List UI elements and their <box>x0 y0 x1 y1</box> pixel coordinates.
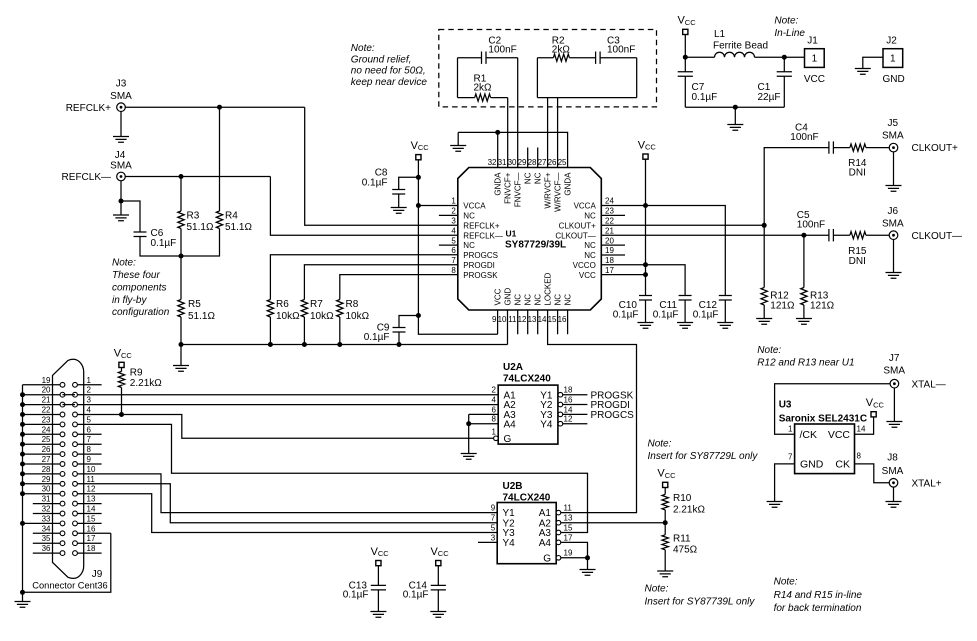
wire U2A A3 A4 to ground <box>461 414 499 459</box>
node CLKOUT- R13 tap <box>801 233 806 238</box>
resistor R3 51.1ohm <box>178 177 214 257</box>
svg-text:2kΩ: 2kΩ <box>552 45 571 56</box>
svg-text:27: 27 <box>538 158 547 167</box>
resistor R12 121ohm <box>756 225 795 324</box>
svg-text:6: 6 <box>87 425 92 434</box>
svg-text:R12 and R13 near U1: R12 and R13 near U1 <box>757 357 854 368</box>
svg-text:100nF: 100nF <box>488 45 516 56</box>
wire pin30 to C2 <box>517 58 519 168</box>
svg-text:DNI: DNI <box>849 168 866 179</box>
svg-text:VCC: VCC <box>494 288 503 305</box>
svg-text:R10: R10 <box>673 493 692 504</box>
node R3 tap on REFCLK- <box>179 174 184 179</box>
svg-text:A4: A4 <box>504 419 517 430</box>
svg-text:24: 24 <box>42 425 51 434</box>
resistor R13 121ohm <box>796 235 835 324</box>
svg-text:18: 18 <box>605 256 614 265</box>
U1 bottom NC stubs pins 11-16 <box>518 310 568 334</box>
svg-text:CC: CC <box>873 400 884 409</box>
svg-text:13: 13 <box>564 514 573 523</box>
svg-text:22: 22 <box>605 217 614 226</box>
ground below J7 <box>886 388 902 428</box>
U2B right pins A1-A4 G <box>539 504 573 565</box>
svg-text:3: 3 <box>451 217 456 226</box>
node CLKOUT+ R12 tap <box>762 223 767 228</box>
node J4 shield junction <box>119 199 124 204</box>
connector J9 Cent36 body <box>53 359 84 578</box>
svg-text:VCCO: VCCO <box>573 261 596 270</box>
svg-text:CK: CK <box>835 459 850 471</box>
ground below J5 <box>886 152 902 192</box>
capacitor C12 0.1uF with ground <box>693 296 734 329</box>
svg-text:NC: NC <box>514 294 523 306</box>
svg-text:18: 18 <box>87 544 96 553</box>
note R12 R13 near U1 <box>757 345 854 369</box>
svg-text:Note:: Note: <box>757 345 781 356</box>
svg-text:XTAL+: XTAL+ <box>912 478 942 489</box>
svg-text:J7: J7 <box>889 353 900 364</box>
svg-text:R3: R3 <box>187 211 200 222</box>
svg-text:15: 15 <box>87 514 96 523</box>
wire junction down to R5 <box>180 256 182 300</box>
buffer U2A 74LCX240 <box>498 362 558 444</box>
capacitor C7 0.1uF <box>678 57 718 107</box>
svg-text:VCCA: VCCA <box>574 202 597 211</box>
resistor R10 2.21kohm <box>662 487 705 523</box>
svg-text:FNVCF—: FNVCF— <box>514 173 523 208</box>
svg-text:GNDA: GNDA <box>494 172 503 196</box>
svg-text:REFCLK+: REFCLK+ <box>463 221 500 230</box>
svg-text:R14 and R15 in-line: R14 and R15 in-line <box>774 590 863 601</box>
wire Vcc to L1 node <box>685 34 714 57</box>
svg-text:12: 12 <box>564 415 573 424</box>
svg-text:R6: R6 <box>276 299 289 310</box>
U1 bottom pin numbers and rotated names <box>492 272 573 323</box>
svg-text:9: 9 <box>491 504 496 513</box>
svg-text:19: 19 <box>42 376 51 385</box>
node L1 right <box>782 55 787 60</box>
svg-text:19: 19 <box>605 246 614 255</box>
vcc symbol at U3 pin14 <box>855 397 885 434</box>
svg-text:2kΩ: 2kΩ <box>474 83 493 94</box>
wire Vcc rail to C10 <box>645 159 647 296</box>
svg-text:31: 31 <box>42 495 51 504</box>
note fly-by configuration <box>112 258 170 319</box>
wire J9 pin5 to U2B A3 <box>77 424 587 532</box>
svg-text:SMA: SMA <box>882 130 904 141</box>
vcc symbol above C8 <box>411 140 430 160</box>
svg-text:35: 35 <box>42 534 51 543</box>
svg-text:Y4: Y4 <box>503 538 516 549</box>
svg-text:In-Line: In-Line <box>774 28 805 39</box>
svg-text:8: 8 <box>857 451 862 460</box>
svg-text:NC: NC <box>524 172 533 184</box>
svg-text:5: 5 <box>451 236 456 245</box>
capacitor C4 100nF <box>790 122 833 153</box>
svg-text:G: G <box>504 434 512 445</box>
svg-text:Connector Cent36: Connector Cent36 <box>32 581 107 591</box>
svg-text:Note:: Note: <box>648 439 672 450</box>
resistor R2 2kohm <box>537 36 570 98</box>
svg-text:8: 8 <box>451 266 456 275</box>
svg-text:3: 3 <box>491 533 496 542</box>
svg-text:Ferrite Bead: Ferrite Bead <box>713 41 768 52</box>
svg-text:SMA: SMA <box>882 466 904 477</box>
wire J9 pin11 to U2B Y2 <box>77 484 497 523</box>
svg-text:U2A: U2A <box>503 362 523 373</box>
ground below J6 <box>886 239 902 278</box>
svg-text:NC: NC <box>534 172 543 184</box>
svg-text:17: 17 <box>564 533 573 542</box>
J9 labels <box>32 569 107 591</box>
connector J7 (SMA) XTAL- <box>883 353 905 388</box>
svg-text:29: 29 <box>42 475 51 484</box>
svg-text:16: 16 <box>564 395 573 404</box>
svg-text:30: 30 <box>508 158 517 167</box>
wire J9 pin2 to U2A A1 <box>77 394 498 396</box>
svg-text:CLKOUT+: CLKOUT+ <box>559 221 596 230</box>
svg-text:PROGDI: PROGDI <box>463 261 495 270</box>
svg-text:Y4: Y4 <box>540 419 553 430</box>
svg-text:Note:: Note: <box>774 577 798 588</box>
svg-text:26: 26 <box>42 445 51 454</box>
ground below J3 <box>113 111 129 142</box>
svg-text:Note:: Note: <box>112 258 136 269</box>
svg-text:20: 20 <box>605 236 614 245</box>
svg-text:CC: CC <box>418 143 429 152</box>
svg-text:8: 8 <box>87 445 92 454</box>
svg-text:0.1µF: 0.1µF <box>692 92 718 103</box>
svg-text:32: 32 <box>488 158 497 167</box>
svg-text:4: 4 <box>87 406 92 415</box>
svg-text:51.1Ω: 51.1Ω <box>225 222 252 233</box>
svg-text:475Ω: 475Ω <box>673 544 698 555</box>
node pin1 tap <box>416 203 421 208</box>
svg-text:J8: J8 <box>887 453 898 464</box>
capacitor C14 0.1uF with vcc and ground <box>403 546 449 618</box>
svg-text:121Ω: 121Ω <box>770 300 795 311</box>
svg-text:REFCLK—: REFCLK— <box>463 231 503 240</box>
svg-text:0.1µF: 0.1µF <box>403 590 429 601</box>
J9 label box <box>23 533 111 592</box>
node A3A4 junction <box>466 421 471 426</box>
svg-text:R4: R4 <box>225 211 238 222</box>
svg-text:100nF: 100nF <box>790 132 818 143</box>
svg-text:5: 5 <box>87 415 92 424</box>
svg-text:12: 12 <box>518 315 527 324</box>
resistor R1 2kohm <box>458 58 508 101</box>
wire U2B A4 to G <box>561 542 588 557</box>
wire U1 pin17 VCC to rail <box>601 274 645 276</box>
svg-text:/CK: /CK <box>800 429 818 441</box>
svg-text:R8: R8 <box>346 299 359 310</box>
node R3/R4/C6 junction <box>179 254 184 259</box>
svg-text:Insert for SY87729L only: Insert for SY87729L only <box>648 451 759 462</box>
resistor R14 DNI <box>833 144 889 179</box>
capacitor C2 100nF <box>458 36 518 64</box>
svg-text:no need for 50Ω,: no need for 50Ω, <box>351 66 426 77</box>
svg-text:J6: J6 <box>888 206 899 217</box>
svg-text:10kΩ: 10kΩ <box>276 311 300 322</box>
svg-text:11: 11 <box>87 475 96 484</box>
capacitor C13 0.1uF with vcc and ground <box>343 546 390 618</box>
svg-text:J5: J5 <box>888 118 899 129</box>
connector J4 (SMA) <box>110 150 132 181</box>
svg-text:1: 1 <box>812 54 818 65</box>
wire J7 to U3 /CK <box>775 384 891 435</box>
wire U2B G to ground <box>561 558 596 576</box>
J9 pins rows <box>20 376 111 556</box>
wire U1 pin24 VCCA to C12 <box>601 206 725 296</box>
svg-text:NC: NC <box>524 294 533 306</box>
svg-text:21: 21 <box>42 396 51 405</box>
svg-text:G: G <box>543 553 551 564</box>
svg-text:1: 1 <box>451 197 456 206</box>
svg-text:26: 26 <box>548 158 557 167</box>
svg-text:R5: R5 <box>188 299 201 310</box>
capacitor C10 0.1uF with ground <box>613 296 654 329</box>
svg-text:2: 2 <box>451 207 456 216</box>
connector J1 VCC <box>804 36 825 86</box>
note R14 R15 in-line <box>774 577 863 614</box>
wire C7 C1 common to ground <box>685 107 784 130</box>
svg-text:14: 14 <box>538 315 547 324</box>
svg-text:Ground relief,: Ground relief, <box>351 54 412 65</box>
svg-text:NC: NC <box>554 294 563 306</box>
svg-text:5: 5 <box>491 523 496 532</box>
svg-text:51.1Ω: 51.1Ω <box>188 311 215 322</box>
node R10 R11 junction <box>663 520 668 525</box>
resistor R6 10kohm <box>267 255 458 345</box>
svg-text:0.1µF: 0.1µF <box>364 332 390 343</box>
svg-text:PROGCS: PROGCS <box>463 251 498 260</box>
U2B left pins Y1-Y4 <box>478 504 515 550</box>
svg-text:PROGSK: PROGSK <box>463 271 498 280</box>
svg-text:1: 1 <box>890 54 896 65</box>
note insert SY87729L <box>648 439 759 463</box>
wire U2B A2 to R10R11 divider <box>561 522 665 524</box>
svg-text:34: 34 <box>42 524 51 533</box>
node rail junctions <box>179 342 402 347</box>
svg-text:100nF: 100nF <box>797 220 825 231</box>
capacitor C5 100nF <box>797 210 834 241</box>
svg-text:J3: J3 <box>116 79 127 90</box>
svg-text:74LCX240: 74LCX240 <box>503 374 551 385</box>
oscillator U3 Saronix SEL2431C <box>779 400 867 474</box>
svg-text:L1: L1 <box>714 29 726 40</box>
capacitor C6 0.1uF <box>134 228 182 256</box>
node pin24 tap <box>643 203 648 208</box>
svg-text:CC: CC <box>438 549 449 558</box>
svg-text:CC: CC <box>645 143 656 152</box>
svg-text:0.1µF: 0.1µF <box>693 310 719 321</box>
vcc symbol top right of U1 <box>638 139 657 159</box>
svg-text:2: 2 <box>492 386 497 395</box>
svg-text:REFCLK+: REFCLK+ <box>66 103 111 114</box>
svg-text:NC: NC <box>584 241 596 250</box>
svg-text:for back termination: for back termination <box>774 603 862 614</box>
U2A right pins Y1-Y4 <box>540 386 587 431</box>
svg-text:13: 13 <box>528 315 537 324</box>
wire REFCLK- from J4 to U1 pin 4 <box>125 177 458 236</box>
capacitor C11 0.1uF with ground <box>653 296 693 329</box>
ground at J2 <box>855 57 883 74</box>
connector J8 (SMA) XTAL+ <box>882 453 904 487</box>
svg-text:23: 23 <box>42 415 51 424</box>
svg-text:17: 17 <box>87 534 96 543</box>
node pin32 on GNDA net <box>495 130 500 135</box>
svg-text:SY87729/39L: SY87729/39L <box>505 240 566 251</box>
wire J9 pin12 to U2B Y3 <box>77 494 497 533</box>
U2A left pins A1-A4 G <box>492 386 517 445</box>
node L1 left <box>683 55 688 60</box>
svg-text:NC: NC <box>584 212 596 221</box>
svg-text:SMA: SMA <box>110 91 132 102</box>
svg-text:VCCA: VCCA <box>463 202 486 211</box>
ground rail under R5-R8 <box>181 344 508 346</box>
svg-text:2.21kΩ: 2.21kΩ <box>130 378 162 389</box>
svg-text:74LCX240: 74LCX240 <box>503 492 551 503</box>
svg-text:7: 7 <box>451 256 456 265</box>
svg-text:0.1µF: 0.1µF <box>362 178 388 189</box>
resistor R15 DNI <box>833 232 889 267</box>
svg-text:20: 20 <box>42 386 51 395</box>
svg-text:9: 9 <box>492 315 497 324</box>
wire J9 pin4 to U2A G <box>77 415 493 439</box>
svg-text:VCC: VCC <box>804 74 825 85</box>
svg-text:10: 10 <box>87 465 96 474</box>
svg-text:GND: GND <box>504 288 513 306</box>
connector J6 (SMA) CLKOUT- <box>882 206 904 240</box>
wire U1 pin9 VCC down to rail <box>497 310 499 334</box>
resistor R8 10kohm <box>337 275 458 345</box>
ground below J8 <box>886 487 902 508</box>
svg-text:100nF: 100nF <box>607 45 635 56</box>
svg-text:3: 3 <box>87 396 92 405</box>
svg-text:16: 16 <box>558 315 567 324</box>
J9 ground rail bottom ground <box>15 592 31 607</box>
svg-text:1: 1 <box>87 376 92 385</box>
wire U3 pin8 CK to J8 <box>855 464 890 483</box>
U1 right pin stubs and numbers <box>555 197 625 280</box>
svg-text:17: 17 <box>605 266 614 275</box>
svg-text:NC: NC <box>584 251 596 260</box>
wire U1 pin10 GND down to ground rail <box>507 310 509 345</box>
svg-text:SMA: SMA <box>882 218 904 229</box>
vcc symbol top power input <box>678 15 697 35</box>
svg-text:LOCKED: LOCKED <box>544 272 553 305</box>
op-amp U1 SY87729/39L body <box>458 168 602 311</box>
wire Vcc rail to U1 pin 9 <box>418 160 497 335</box>
wire R2C3 bottom to pins 27 26 <box>537 98 636 168</box>
ground below J4 <box>113 201 129 221</box>
wire U1 pin18 VCCO to C11 <box>601 265 685 296</box>
wire J9 pin3 to U2A A2 <box>77 404 498 406</box>
node C7C1 ground junction <box>733 105 738 110</box>
wire LOCKED U1 pin14 to U2B A1 <box>548 310 637 513</box>
svg-text:7: 7 <box>491 514 496 523</box>
svg-text:GND: GND <box>882 74 904 85</box>
wire REFCLK+ from J3 to U1 pin 3 <box>125 107 458 225</box>
node pin18 tap <box>643 262 648 267</box>
svg-text:29: 29 <box>518 158 527 167</box>
node pin17 tap <box>643 272 648 277</box>
node R9 bottom <box>119 412 124 417</box>
svg-text:configuration: configuration <box>112 307 170 318</box>
resistor R5 51.1ohm <box>178 299 216 344</box>
node A4-G junction <box>585 555 590 560</box>
capacitor C9 0.1uF <box>364 316 419 345</box>
U1 top NC stubs pins 29 28 <box>528 148 538 168</box>
svg-text:J1: J1 <box>807 36 818 47</box>
svg-text:in fly-by: in fly-by <box>112 295 147 306</box>
svg-text:27: 27 <box>42 455 51 464</box>
vcc symbol above R10 <box>657 468 676 488</box>
svg-text:6: 6 <box>451 246 456 255</box>
wire U3 pin7 GND to ground <box>767 464 795 507</box>
svg-text:Note:: Note: <box>351 43 375 54</box>
svg-text:6: 6 <box>492 405 497 414</box>
svg-text:15: 15 <box>564 523 573 532</box>
svg-text:11: 11 <box>508 315 517 324</box>
svg-text:4: 4 <box>451 226 456 235</box>
svg-text:30: 30 <box>42 485 51 494</box>
svg-text:CC: CC <box>378 549 389 558</box>
wire pin31 to R1 <box>507 98 509 168</box>
connector J3 (SMA) <box>110 79 132 112</box>
node R4 tap on REFCLK+ <box>217 105 222 110</box>
wire Vcc to U1 pin 1 <box>418 205 457 207</box>
svg-text:A4: A4 <box>539 538 552 549</box>
svg-text:NC: NC <box>534 294 543 306</box>
svg-text:PROGCS: PROGCS <box>591 410 635 421</box>
svg-text:XTAL—: XTAL— <box>912 379 946 390</box>
U1 top pin numbers and rotated names <box>488 158 573 212</box>
svg-text:0.1µF: 0.1µF <box>653 310 679 321</box>
svg-text:W/RVCF—: W/RVCF— <box>554 173 563 212</box>
note ground relief <box>351 43 428 88</box>
svg-text:7: 7 <box>87 435 92 444</box>
svg-text:25: 25 <box>42 435 51 444</box>
svg-text:0.1µF: 0.1µF <box>343 590 369 601</box>
note insert SY87739L <box>645 583 756 607</box>
svg-text:14: 14 <box>857 425 866 434</box>
svg-text:12: 12 <box>87 485 96 494</box>
J9 left ground rail <box>22 385 24 593</box>
note in-line <box>774 16 805 40</box>
buffer U2B 74LCX240 <box>497 481 556 564</box>
svg-text:R11: R11 <box>673 533 691 544</box>
svg-text:VCC: VCC <box>579 271 596 280</box>
svg-text:33: 33 <box>42 514 51 523</box>
svg-text:0.1µF: 0.1µF <box>151 238 177 249</box>
svg-text:28: 28 <box>42 465 51 474</box>
ground symbol on rail <box>173 345 189 372</box>
svg-text:SMA: SMA <box>883 366 905 377</box>
svg-text:These four: These four <box>112 270 160 281</box>
svg-text:CC: CC <box>121 351 132 360</box>
svg-text:W/RVCF+: W/RVCF+ <box>544 172 553 208</box>
svg-text:0.1µF: 0.1µF <box>613 310 639 321</box>
svg-text:15: 15 <box>548 315 557 324</box>
svg-text:NC: NC <box>463 212 475 221</box>
node C9 to Vcc rail <box>416 313 421 318</box>
svg-text:9: 9 <box>87 455 92 464</box>
svg-text:keep near device: keep near device <box>351 77 428 88</box>
svg-text:11: 11 <box>564 504 573 513</box>
resistor R7 10kohm <box>301 265 458 345</box>
svg-text:R7: R7 <box>310 299 323 310</box>
